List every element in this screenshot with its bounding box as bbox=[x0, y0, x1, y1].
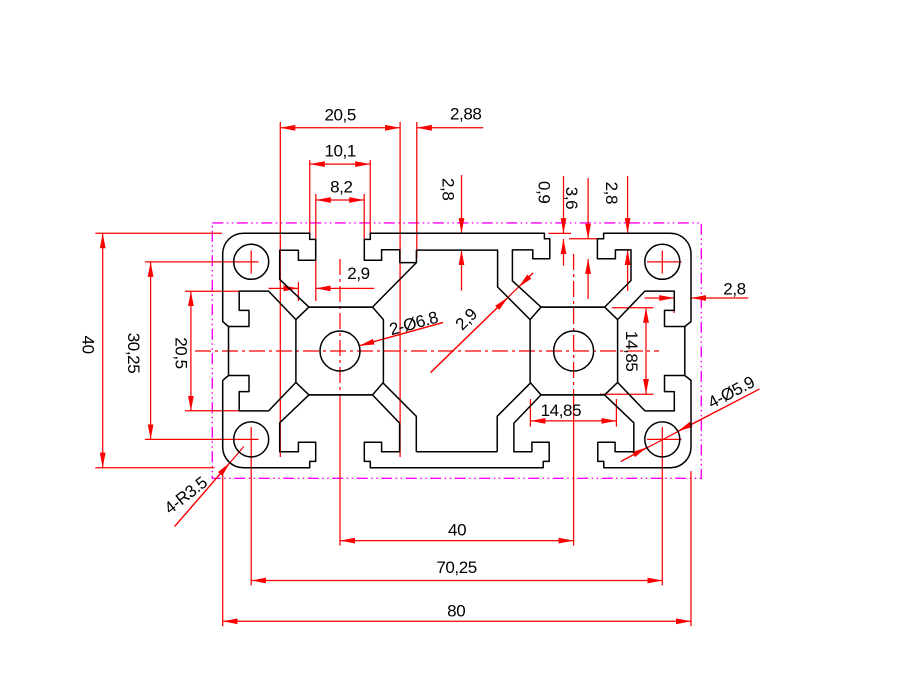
svg-text:2,9: 2,9 bbox=[347, 264, 369, 283]
svg-text:10,1: 10,1 bbox=[324, 142, 356, 161]
svg-text:40: 40 bbox=[448, 521, 466, 540]
svg-text:30,25: 30,25 bbox=[124, 333, 143, 374]
svg-text:14,85: 14,85 bbox=[622, 331, 641, 372]
svg-text:2,88: 2,88 bbox=[450, 105, 482, 124]
svg-text:2,8: 2,8 bbox=[602, 182, 621, 204]
svg-text:20,5: 20,5 bbox=[324, 106, 356, 125]
svg-text:20,5: 20,5 bbox=[171, 337, 190, 369]
svg-text:80: 80 bbox=[447, 602, 465, 621]
svg-text:4-R3.5: 4-R3.5 bbox=[161, 473, 211, 518]
svg-text:2-Ø6.8: 2-Ø6.8 bbox=[387, 308, 440, 340]
svg-text:3,6: 3,6 bbox=[562, 187, 581, 209]
svg-text:14,85: 14,85 bbox=[541, 401, 582, 420]
svg-text:70,25: 70,25 bbox=[436, 558, 477, 577]
svg-text:2,8: 2,8 bbox=[438, 178, 457, 200]
svg-text:40: 40 bbox=[78, 336, 97, 354]
svg-text:0,9: 0,9 bbox=[535, 181, 554, 203]
svg-text:8,2: 8,2 bbox=[330, 177, 352, 196]
svg-text:2,9: 2,9 bbox=[452, 305, 481, 334]
svg-text:2,8: 2,8 bbox=[723, 280, 745, 299]
svg-text:4-Ø5.9: 4-Ø5.9 bbox=[705, 373, 758, 413]
